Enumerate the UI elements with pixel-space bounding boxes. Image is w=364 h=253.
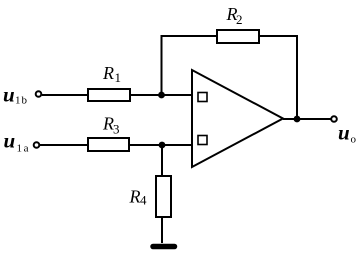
svg-text:3: 3 xyxy=(113,122,120,137)
svg-text:1: 1 xyxy=(115,70,122,85)
svg-text:1b: 1b xyxy=(15,95,28,107)
svg-text:R: R xyxy=(129,187,141,207)
svg-text:1a: 1a xyxy=(17,143,31,155)
svg-text:u: u xyxy=(4,129,16,153)
svg-text:u: u xyxy=(338,121,350,145)
svg-text:o: o xyxy=(351,134,357,146)
svg-text:R: R xyxy=(102,63,114,83)
svg-text:4: 4 xyxy=(140,193,147,208)
svg-text:2: 2 xyxy=(236,12,243,27)
svg-text:u: u xyxy=(3,83,15,107)
